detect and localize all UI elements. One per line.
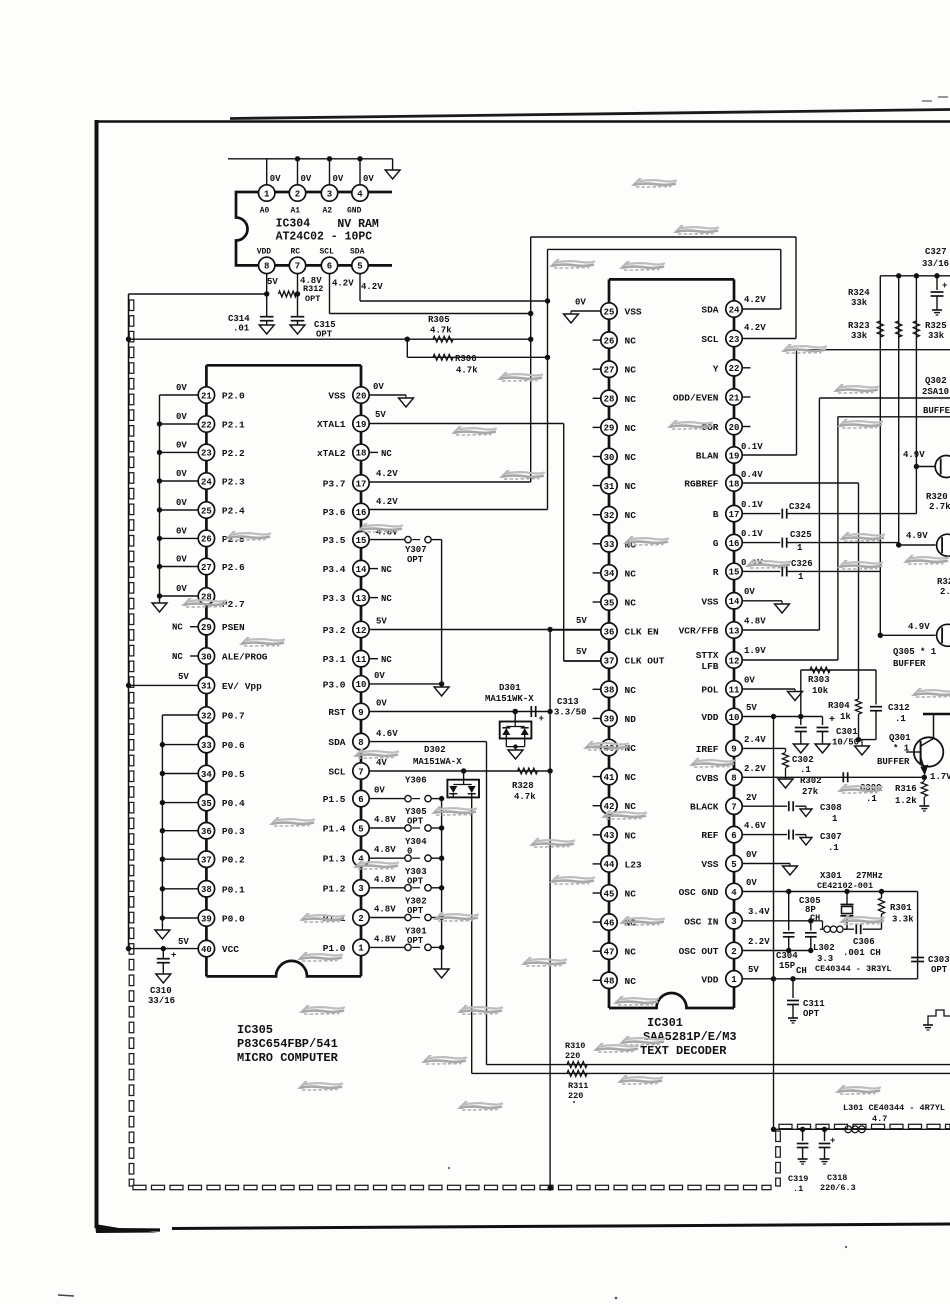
svg-text:34: 34	[604, 569, 615, 579]
svg-text:7: 7	[358, 767, 363, 777]
svg-text:220: 220	[565, 1051, 580, 1061]
svg-text:VSS: VSS	[701, 596, 718, 607]
svg-text:37: 37	[604, 657, 615, 667]
svg-text:CLK OUT: CLK OUT	[625, 656, 665, 667]
svg-text:.01: .01	[233, 324, 250, 334]
svg-text:27k: 27k	[802, 787, 819, 797]
svg-text:R324: R324	[848, 288, 870, 298]
svg-text:28: 28	[604, 395, 615, 405]
svg-text:POL: POL	[701, 685, 718, 696]
svg-text:C306: C306	[853, 937, 875, 947]
svg-text:5V: 5V	[376, 617, 387, 627]
svg-text:BUFFER: BUFFER	[923, 406, 950, 416]
svg-text:46: 46	[604, 918, 615, 928]
svg-text:9: 9	[358, 708, 363, 718]
svg-text:RST: RST	[328, 707, 345, 718]
svg-text:ND: ND	[625, 714, 637, 725]
svg-text:NC: NC	[625, 481, 637, 492]
svg-text:ODD/EVEN: ODD/EVEN	[673, 393, 719, 404]
svg-text:4.2V: 4.2V	[376, 497, 398, 507]
svg-text:IC305: IC305	[237, 1023, 273, 1037]
svg-text:R303: R303	[808, 675, 830, 685]
svg-text:19: 19	[729, 451, 740, 461]
svg-text:2: 2	[731, 947, 736, 957]
svg-text:CLK EN: CLK EN	[625, 627, 660, 638]
svg-text:3: 3	[327, 189, 332, 199]
svg-text:R305: R305	[428, 315, 450, 325]
svg-text:SDA: SDA	[701, 305, 718, 316]
svg-text:40: 40	[201, 945, 212, 955]
svg-text:Q302: Q302	[925, 376, 947, 386]
svg-text:NC: NC	[381, 594, 392, 604]
svg-text:3.4V: 3.4V	[748, 907, 770, 917]
svg-text:8: 8	[264, 262, 269, 272]
svg-text:31: 31	[201, 682, 212, 692]
svg-text:10/50: 10/50	[832, 738, 859, 748]
svg-text:16: 16	[729, 539, 740, 549]
svg-text:R304: R304	[828, 701, 850, 711]
svg-text:GND: GND	[347, 207, 362, 216]
svg-text:MICRO COMPUTER: MICRO COMPUTER	[237, 1051, 339, 1065]
svg-text:1: 1	[797, 543, 803, 553]
svg-text:B: B	[713, 509, 719, 520]
svg-text:27MHz: 27MHz	[856, 871, 883, 881]
svg-text:18: 18	[356, 449, 367, 459]
svg-text:P1.0: P1.0	[323, 943, 346, 954]
svg-text:AT24C02 - 10PC: AT24C02 - 10PC	[276, 231, 373, 244]
svg-text:4.9V: 4.9V	[908, 622, 930, 632]
svg-text:33k: 33k	[928, 331, 945, 341]
svg-text:ALE/PROG: ALE/PROG	[222, 652, 268, 663]
svg-text:VSS: VSS	[625, 307, 642, 318]
svg-text:38: 38	[201, 885, 212, 895]
svg-text:P3.7: P3.7	[323, 479, 346, 490]
svg-text:32: 32	[201, 711, 212, 721]
svg-text:6: 6	[731, 831, 736, 841]
svg-text:45: 45	[604, 889, 615, 899]
svg-text:17: 17	[729, 510, 740, 520]
svg-text:4.8V: 4.8V	[374, 905, 396, 915]
svg-text:0V: 0V	[744, 676, 755, 686]
svg-text:2.2V: 2.2V	[744, 764, 766, 774]
svg-text:16: 16	[356, 508, 367, 518]
svg-text:C324: C324	[789, 502, 811, 512]
svg-text:SCL: SCL	[701, 334, 718, 345]
svg-text:SCL: SCL	[328, 767, 345, 778]
svg-text:220/6.3: 220/6.3	[820, 1183, 856, 1193]
svg-text:XTAL1: XTAL1	[317, 419, 346, 430]
svg-text:R320: R320	[926, 492, 948, 502]
svg-text:2: 2	[295, 189, 300, 199]
svg-text:32: 32	[604, 511, 615, 521]
svg-text:17: 17	[356, 479, 367, 489]
svg-text:P1.2: P1.2	[323, 883, 346, 894]
svg-text:NC: NC	[625, 947, 637, 958]
svg-text:1: 1	[798, 572, 804, 582]
svg-text:Y304: Y304	[405, 837, 427, 847]
svg-text:G: G	[713, 538, 719, 549]
svg-text:OPT: OPT	[407, 936, 424, 946]
svg-text:5V: 5V	[178, 937, 189, 947]
svg-text:CVBS: CVBS	[696, 773, 719, 784]
svg-text:P3.0: P3.0	[323, 679, 346, 690]
svg-text:RGBREF: RGBREF	[684, 479, 719, 490]
svg-text:Q301: Q301	[889, 733, 911, 743]
svg-text:R310: R310	[565, 1041, 585, 1051]
svg-text:NV RAM: NV RAM	[337, 218, 379, 231]
svg-text:0.1V: 0.1V	[741, 500, 763, 510]
svg-text:CE42102-001: CE42102-001	[817, 881, 873, 891]
svg-text:31: 31	[604, 482, 615, 492]
svg-text:1: 1	[832, 814, 838, 824]
svg-text:R306: R306	[455, 354, 477, 364]
svg-text:5: 5	[731, 860, 736, 870]
svg-text:33k: 33k	[851, 331, 868, 341]
svg-text:CH: CH	[796, 966, 807, 976]
svg-text:BUFFER: BUFFER	[877, 757, 910, 767]
svg-text:36: 36	[201, 827, 212, 837]
svg-text:R311: R311	[568, 1081, 588, 1091]
svg-text:L301 CE40344 - 4R7YL: L301 CE40344 - 4R7YL	[843, 1103, 945, 1113]
svg-text:NC: NC	[381, 449, 392, 459]
svg-text:22: 22	[729, 364, 740, 374]
svg-text:48: 48	[604, 977, 615, 987]
svg-text:D302: D302	[424, 745, 446, 755]
svg-text:2.4V: 2.4V	[744, 735, 766, 745]
svg-text:2.: 2.	[940, 587, 950, 597]
svg-text:+: +	[942, 281, 947, 291]
svg-text:4.7k: 4.7k	[430, 326, 452, 336]
svg-text:P2.3: P2.3	[222, 477, 245, 488]
svg-text:NC: NC	[381, 655, 392, 665]
svg-text:C319: C319	[788, 1174, 808, 1184]
svg-text:0V: 0V	[176, 526, 187, 536]
svg-text:C312: C312	[888, 703, 910, 713]
svg-text:1k: 1k	[840, 712, 851, 722]
svg-text:2.2V: 2.2V	[748, 937, 770, 947]
svg-text:8: 8	[358, 738, 363, 748]
svg-text:3.3k: 3.3k	[892, 915, 914, 925]
svg-text:NC: NC	[625, 976, 637, 987]
svg-text:SDA: SDA	[328, 737, 345, 748]
svg-text:C310: C310	[150, 986, 172, 996]
svg-text:9: 9	[731, 745, 736, 755]
svg-text:P0.0: P0.0	[222, 914, 245, 925]
svg-text:P0.7: P0.7	[222, 711, 245, 722]
svg-text:MA151WA-X: MA151WA-X	[413, 757, 462, 767]
svg-text:NC: NC	[381, 565, 392, 575]
svg-text:44: 44	[604, 860, 615, 870]
svg-text:27: 27	[201, 563, 212, 573]
svg-text:MA151WK-X: MA151WK-X	[485, 694, 534, 704]
svg-text:0V: 0V	[363, 174, 374, 184]
svg-text:NC: NC	[625, 394, 637, 405]
svg-text:OPT: OPT	[316, 330, 333, 340]
svg-text:5V: 5V	[748, 965, 759, 975]
svg-text:D301: D301	[499, 683, 521, 693]
svg-text:20: 20	[729, 423, 740, 433]
svg-text:0V: 0V	[746, 850, 757, 860]
svg-text:OPT: OPT	[407, 876, 424, 886]
svg-text:NC: NC	[625, 889, 637, 900]
svg-text:43: 43	[604, 831, 615, 841]
svg-text:P2.2: P2.2	[222, 448, 245, 459]
svg-text:P3.4: P3.4	[323, 564, 346, 575]
svg-text:OPT: OPT	[407, 555, 424, 565]
svg-text:11: 11	[356, 655, 367, 665]
svg-text:.1: .1	[895, 714, 906, 724]
svg-text:12: 12	[356, 626, 367, 636]
svg-text:1.7V: 1.7V	[930, 772, 950, 782]
svg-text:0V: 0V	[374, 671, 385, 681]
svg-text:23: 23	[729, 335, 740, 345]
svg-text:C302: C302	[792, 755, 814, 765]
svg-text:3: 3	[358, 884, 363, 894]
svg-text:Y303: Y303	[405, 867, 427, 877]
svg-text:4.8V: 4.8V	[374, 845, 396, 855]
svg-text:TEXT DECODER: TEXT DECODER	[640, 1044, 727, 1058]
svg-text:30: 30	[201, 652, 212, 662]
svg-text:.1: .1	[800, 765, 811, 775]
svg-text:C325: C325	[790, 530, 812, 540]
svg-text:+: +	[829, 715, 835, 726]
svg-text:C314: C314	[228, 314, 250, 324]
svg-text:5V: 5V	[178, 672, 189, 682]
svg-text:24: 24	[729, 305, 740, 315]
svg-text:4.6V: 4.6V	[744, 821, 766, 831]
svg-text:0V: 0V	[176, 584, 187, 594]
svg-text:33: 33	[201, 741, 212, 751]
svg-text:R316: R316	[895, 784, 917, 794]
svg-text:4.2V: 4.2V	[361, 282, 383, 292]
svg-text:P1.5: P1.5	[323, 794, 346, 805]
svg-text:Y307: Y307	[405, 545, 427, 555]
svg-text:+: +	[830, 1136, 835, 1146]
svg-text:27: 27	[604, 366, 615, 376]
svg-text:6: 6	[327, 262, 332, 272]
svg-text:Y301: Y301	[405, 926, 427, 936]
svg-text:RC: RC	[291, 248, 301, 257]
svg-text:30: 30	[604, 453, 615, 463]
svg-text:4.8V: 4.8V	[374, 815, 396, 825]
svg-text:33/16: 33/16	[148, 996, 175, 1006]
svg-text:0.4V: 0.4V	[741, 470, 763, 480]
svg-text:R323: R323	[848, 321, 870, 331]
svg-text:Y305: Y305	[405, 807, 427, 817]
svg-text:4.8V: 4.8V	[744, 617, 766, 627]
svg-text:0.1V: 0.1V	[741, 529, 763, 539]
svg-text:19: 19	[356, 420, 367, 430]
svg-text:SCL: SCL	[320, 248, 335, 257]
svg-text:0V: 0V	[746, 878, 757, 888]
svg-text:STTX: STTX	[696, 650, 719, 661]
svg-text:C307: C307	[820, 832, 842, 842]
svg-text:13: 13	[729, 626, 740, 636]
svg-text:2V: 2V	[746, 793, 757, 803]
svg-text:LFB: LFB	[701, 661, 718, 672]
svg-text:25: 25	[201, 506, 212, 516]
svg-text:36: 36	[604, 627, 615, 637]
svg-text:0V: 0V	[575, 298, 586, 308]
svg-text:X301: X301	[820, 871, 842, 881]
svg-text:REF: REF	[701, 830, 718, 841]
svg-text:4: 4	[731, 888, 737, 898]
svg-text:8: 8	[731, 774, 736, 784]
svg-text:OSC IN: OSC IN	[684, 916, 719, 927]
svg-text:NC: NC	[625, 830, 637, 841]
svg-text:+: +	[171, 951, 176, 961]
svg-text:P0.5: P0.5	[222, 769, 245, 780]
svg-text:P0.2: P0.2	[222, 855, 245, 866]
svg-text:P3.3: P3.3	[323, 593, 346, 604]
svg-text:41: 41	[604, 773, 615, 783]
svg-text:10: 10	[729, 713, 740, 723]
svg-text:NC: NC	[625, 801, 637, 812]
svg-text:Y306: Y306	[405, 776, 427, 786]
svg-text:CH: CH	[810, 913, 820, 923]
svg-text:P2.6: P2.6	[222, 562, 245, 573]
svg-text:4.8V: 4.8V	[374, 875, 396, 885]
svg-text:* 1: * 1	[893, 744, 910, 754]
svg-text:P1.3: P1.3	[323, 854, 346, 865]
svg-text:37: 37	[201, 856, 212, 866]
svg-text:P3.5: P3.5	[323, 535, 346, 546]
svg-text:C326: C326	[791, 559, 813, 569]
svg-text:4.7: 4.7	[872, 1114, 887, 1124]
svg-text:6: 6	[358, 795, 363, 805]
svg-text:4.2V: 4.2V	[332, 279, 354, 289]
svg-text:33k: 33k	[851, 298, 868, 308]
svg-text:Y: Y	[713, 363, 719, 374]
svg-text:0V: 0V	[376, 699, 387, 709]
svg-text:P2.4: P2.4	[222, 506, 245, 517]
svg-text:4.8V: 4.8V	[374, 934, 396, 944]
svg-text:P3.2: P3.2	[323, 625, 346, 636]
svg-text:C311: C311	[803, 999, 825, 1009]
svg-text:4.9V: 4.9V	[903, 450, 925, 460]
svg-text:38: 38	[604, 686, 615, 696]
svg-text:14: 14	[356, 565, 367, 575]
svg-text:3.3/50: 3.3/50	[554, 708, 586, 718]
svg-text:26: 26	[604, 336, 615, 346]
svg-text:P3.6: P3.6	[323, 507, 346, 518]
svg-text:34: 34	[201, 770, 212, 780]
svg-text:0V: 0V	[176, 555, 187, 565]
svg-text:5V: 5V	[375, 410, 386, 420]
svg-text:C318: C318	[827, 1173, 847, 1183]
svg-text:Q305 * 1: Q305 * 1	[893, 647, 937, 657]
svg-text:BUFFER: BUFFER	[893, 659, 926, 669]
svg-text:OPT: OPT	[931, 965, 948, 975]
svg-text:A0: A0	[260, 207, 270, 216]
svg-text:14: 14	[729, 597, 740, 607]
svg-text:NC: NC	[625, 365, 637, 376]
svg-text:0V: 0V	[374, 786, 385, 796]
svg-text:NC: NC	[172, 652, 183, 662]
svg-text:C313: C313	[557, 697, 579, 707]
svg-text:0: 0	[407, 847, 412, 857]
svg-text:1.9V: 1.9V	[744, 646, 766, 656]
svg-text:C315: C315	[314, 320, 336, 330]
svg-text:R312: R312	[303, 284, 323, 294]
svg-text:1: 1	[358, 944, 364, 954]
svg-text:C327: C327	[925, 247, 947, 257]
svg-text:13: 13	[356, 594, 367, 604]
svg-text:NC: NC	[625, 772, 637, 783]
svg-text:33: 33	[604, 540, 615, 550]
svg-text:4: 4	[357, 189, 363, 199]
svg-text:VCR/FFB: VCR/FFB	[679, 626, 719, 637]
svg-text:0V: 0V	[333, 174, 344, 184]
svg-text:5: 5	[357, 262, 362, 272]
svg-text:A2: A2	[323, 207, 333, 216]
svg-text:0V: 0V	[176, 383, 187, 393]
svg-text:OPT: OPT	[803, 1009, 820, 1019]
svg-text:P83C654FBP/541: P83C654FBP/541	[237, 1037, 338, 1051]
svg-text:7: 7	[731, 803, 736, 813]
svg-text:C304: C304	[776, 951, 798, 961]
svg-text:OSC GND: OSC GND	[679, 887, 719, 898]
svg-text:25: 25	[604, 307, 615, 317]
svg-text:L23: L23	[625, 859, 642, 870]
svg-text:A1: A1	[291, 207, 301, 216]
svg-text:0V: 0V	[176, 469, 187, 479]
svg-text:0V: 0V	[176, 440, 187, 450]
svg-text:C308: C308	[820, 803, 842, 813]
svg-text:NC: NC	[625, 685, 637, 696]
svg-text:OSC OUT: OSC OUT	[679, 946, 719, 957]
svg-text:NC: NC	[625, 336, 637, 347]
svg-text:BLAN: BLAN	[696, 451, 719, 462]
svg-text:4.6V: 4.6V	[376, 729, 398, 739]
svg-text:10: 10	[356, 680, 367, 690]
svg-text:C303: C303	[928, 955, 950, 965]
svg-text:.1: .1	[828, 843, 839, 853]
svg-text:NC: NC	[625, 423, 637, 434]
svg-text:R32: R32	[937, 577, 950, 587]
svg-text:xTAL2: xTAL2	[317, 448, 346, 459]
svg-text:VSS: VSS	[328, 391, 345, 402]
svg-text:R328: R328	[512, 781, 534, 791]
svg-text:10k: 10k	[812, 686, 829, 696]
svg-text:L302: L302	[813, 943, 835, 953]
svg-text:0V: 0V	[176, 498, 187, 508]
svg-text:0.1V: 0.1V	[741, 442, 763, 452]
svg-text:0V: 0V	[744, 587, 755, 597]
svg-text:2SA10: 2SA10	[922, 387, 949, 397]
svg-text:47: 47	[604, 948, 615, 958]
svg-text:+: +	[539, 714, 544, 724]
svg-text:EV/ Vpp: EV/ Vpp	[222, 681, 262, 692]
svg-text:22: 22	[201, 420, 212, 430]
svg-text:VDD: VDD	[701, 974, 718, 985]
svg-text:NC: NC	[625, 452, 637, 463]
svg-text:1.2k: 1.2k	[895, 796, 917, 806]
svg-text:5V: 5V	[746, 703, 757, 713]
svg-text:12: 12	[729, 656, 740, 666]
svg-text:0V: 0V	[176, 412, 187, 422]
svg-text:P0.4: P0.4	[222, 798, 245, 809]
svg-text:4.2V: 4.2V	[744, 323, 766, 333]
svg-text:.001 CH: .001 CH	[843, 948, 881, 958]
svg-text:4.2V: 4.2V	[744, 295, 766, 305]
svg-text:OPT: OPT	[305, 294, 320, 304]
svg-text:R301: R301	[890, 903, 912, 913]
svg-text:NC: NC	[625, 568, 637, 579]
svg-text:P0.6: P0.6	[222, 740, 245, 751]
svg-text:IC301: IC301	[647, 1016, 683, 1030]
svg-text:R: R	[713, 567, 719, 578]
